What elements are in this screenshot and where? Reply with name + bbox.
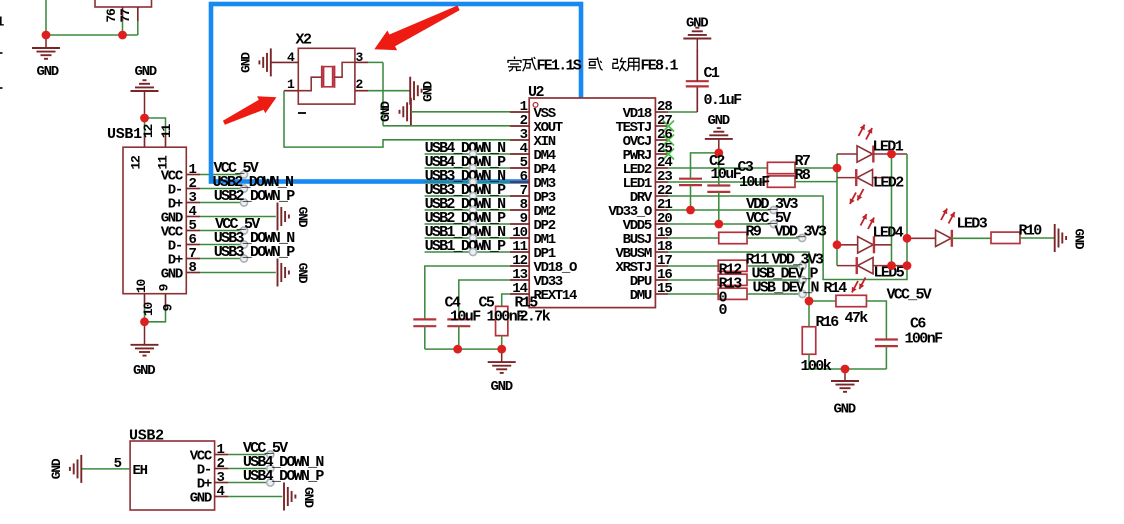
svg-text:USB1_DOWN_P: USB1_DOWN_P bbox=[425, 238, 507, 255]
crystal element plates bbox=[321, 66, 323, 88]
connector USB1 box bbox=[123, 147, 186, 294]
wire vertical from image top to node bbox=[45, 0, 47, 35]
U2 pin 9 stub bbox=[510, 223, 529, 225]
wire net USB2_DOWN_N bbox=[425, 209, 510, 211]
svg-text:USB_DEV_N: USB_DEV_N bbox=[753, 280, 820, 297]
svg-text:R9: R9 bbox=[746, 224, 762, 241]
no-connect mark bbox=[663, 135, 674, 146]
capacitor C6 bbox=[875, 338, 898, 340]
resistor R15 bbox=[496, 306, 508, 335]
wire R8 to LED column bbox=[795, 181, 837, 183]
wire R16 from node bbox=[808, 301, 810, 327]
svg-text:15: 15 bbox=[657, 281, 672, 297]
LED1 light arrows bbox=[859, 125, 865, 136]
wire R11 to net label bbox=[747, 265, 803, 267]
wire LED4 cathode to vertical A bbox=[874, 244, 892, 246]
capacitor C4 bbox=[413, 318, 436, 320]
wire C6 to rail bbox=[885, 346, 887, 369]
U2 pin 28 stub bbox=[655, 111, 668, 113]
USB1 pin 8 stub bbox=[186, 272, 200, 274]
U2 pin 19 stub bbox=[655, 237, 668, 239]
svg-text:GND: GND bbox=[708, 113, 730, 129]
ground above C2/C3 bbox=[718, 139, 720, 153]
U2 pin 3 stub bbox=[510, 139, 529, 141]
crystal element body bbox=[324, 67, 333, 87]
LED LED2 bbox=[857, 169, 873, 185]
U2 pin 18 stub bbox=[655, 251, 668, 253]
wire gnd to C3 branch bbox=[718, 153, 720, 185]
svg-text:U2: U2 bbox=[528, 84, 545, 101]
LED2 light arrows bbox=[857, 189, 863, 200]
svg-text:GND: GND bbox=[239, 52, 254, 73]
ground below R16/C6 bbox=[844, 369, 846, 381]
ground above C1 bbox=[696, 39, 698, 50]
svg-text:GND: GND bbox=[295, 207, 310, 228]
svg-text:12: 12 bbox=[141, 124, 156, 139]
svg-text:4: 4 bbox=[287, 50, 295, 65]
partial IC box (top-left, off-screen component) bbox=[95, 0, 152, 7]
wire vertical A bbox=[891, 154, 893, 266]
LED LED4 bbox=[858, 237, 874, 253]
wire gnd to C2 branch bbox=[691, 153, 719, 178]
wire net USB3_DOWN_N bbox=[425, 181, 510, 183]
U2 pin 13 stub bbox=[510, 279, 529, 281]
svg-text:GND: GND bbox=[834, 402, 856, 418]
svg-text:11: 11 bbox=[159, 124, 174, 139]
svg-text:10uF: 10uF bbox=[739, 174, 770, 191]
ground below USB1 bbox=[144, 322, 146, 345]
wire vertical B bbox=[906, 154, 908, 266]
wire XOUT horizontal bbox=[383, 125, 510, 127]
ground (sideways) at X2 pin4 bbox=[270, 48, 272, 76]
svg-text:FE8.1: FE8.1 bbox=[641, 57, 679, 74]
crystal lead left bbox=[299, 77, 322, 91]
svg-text:GND: GND bbox=[49, 458, 64, 479]
U2 pin 11 stub bbox=[510, 251, 529, 253]
U2 pin 6 stub bbox=[510, 181, 529, 183]
wire BUSJ to R9 bbox=[668, 237, 719, 239]
resistor R9 bbox=[719, 232, 747, 243]
resistor R16 bbox=[802, 327, 816, 355]
svg-text:R10: R10 bbox=[1019, 223, 1043, 240]
wire LED1 cathode to corner bbox=[874, 153, 908, 155]
LED5 light arrows bbox=[859, 278, 865, 289]
wire to LED1 anode bbox=[837, 153, 857, 155]
wire C1 up to ground bbox=[696, 50, 698, 82]
minus mark bbox=[298, 112, 306, 114]
svg-text:GND: GND bbox=[686, 16, 708, 32]
X2 pin 2 wire bbox=[355, 90, 368, 92]
wire to LED3 bbox=[907, 237, 936, 239]
svg-text:2: 2 bbox=[356, 77, 364, 92]
svg-text:GND: GND bbox=[37, 64, 59, 80]
U2 pin 2 stub bbox=[510, 125, 529, 127]
ground below rail bbox=[501, 349, 503, 362]
wire net USB4_DOWN_N bbox=[425, 153, 510, 155]
svg-text:8: 8 bbox=[189, 260, 197, 276]
wire C2 to VDD_3V3 row bbox=[690, 185, 692, 210]
crystal lead right bbox=[334, 62, 354, 77]
resistor R10 bbox=[991, 232, 1020, 243]
U2 pin 27 stub bbox=[655, 125, 668, 127]
blue annotation rectangle bbox=[211, 4, 581, 182]
LED3 light arrows bbox=[941, 209, 947, 220]
U2 pin 15 stub bbox=[655, 293, 668, 295]
wire pin12 up bbox=[144, 118, 146, 133]
resistor R12 bbox=[718, 274, 747, 285]
svg-text:5: 5 bbox=[114, 456, 122, 472]
wire R12 to net label bbox=[747, 279, 803, 281]
wire LED5 anode bbox=[873, 265, 907, 267]
U2 pin 1 stub bbox=[510, 111, 529, 113]
wire LED5 branch bbox=[837, 265, 857, 267]
red annotation arrow 2 bbox=[223, 96, 277, 125]
USB1 pin 2 stub bbox=[186, 188, 200, 190]
U2 pin 7 stub bbox=[510, 195, 529, 197]
svg-text:11: 11 bbox=[156, 155, 171, 170]
U2 pin 25 stub bbox=[655, 153, 668, 155]
LED LED5 bbox=[858, 257, 874, 273]
svg-text:100k: 100k bbox=[801, 358, 832, 375]
U2 pin 26 stub bbox=[655, 139, 668, 141]
X2 pin 4 wire bbox=[271, 61, 299, 63]
pin 10 down bbox=[144, 294, 146, 308]
wire U2 pin23 to R8 bbox=[668, 181, 767, 183]
partial glyph mark at left edge bbox=[0, 87, 3, 89]
wire R14 to VCC corner bbox=[867, 301, 887, 339]
svg-text:C1: C1 bbox=[704, 65, 720, 82]
wire VD33_O to net label bbox=[668, 209, 774, 211]
ground (sideways) right of R10 bbox=[1054, 224, 1056, 252]
wire U2 pin13 to C5 bbox=[459, 280, 510, 319]
svg-text:GND: GND bbox=[190, 491, 212, 507]
ground (sideways) at X2 pin2 bbox=[409, 77, 411, 105]
capacitor C2 bbox=[679, 178, 702, 180]
LED4 light arrows bbox=[861, 214, 867, 225]
wire to LED4 anode bbox=[837, 244, 858, 246]
wire DRV long route bbox=[668, 196, 907, 280]
U2 pin 24 stub bbox=[655, 167, 668, 169]
USB1 pin 1 stub bbox=[186, 174, 200, 176]
wire XIN route from X2 pin1 bbox=[284, 91, 510, 147]
svg-text:1: 1 bbox=[0, 15, 4, 31]
wire U2 pin14 to R15 bbox=[502, 294, 510, 306]
svg-text:USB3_DOWN_P: USB3_DOWN_P bbox=[214, 244, 296, 261]
partial glyph mark at left edge bbox=[0, 52, 3, 54]
ground (sideways) for U2 VSS bbox=[410, 98, 412, 126]
U2 pin 16 stub bbox=[655, 279, 668, 281]
USB2 pin 1 stub bbox=[215, 454, 228, 456]
U2 pin 5 stub bbox=[510, 167, 529, 169]
svg-text:USB4_DOWN_P: USB4_DOWN_P bbox=[243, 468, 325, 485]
U2 pin 8 stub bbox=[510, 209, 529, 211]
wire net USB1_DOWN_N bbox=[425, 237, 510, 239]
resistor R11 bbox=[718, 260, 747, 271]
U2 pin 10 stub bbox=[510, 237, 529, 239]
ground (sideways) at USB2 pin4 bbox=[283, 483, 285, 511]
wire R7 to LED pair bbox=[795, 167, 837, 169]
no-connect mark bbox=[663, 121, 674, 132]
U2 pin 22 stub bbox=[655, 195, 668, 197]
svg-text:REXT14: REXT14 bbox=[534, 288, 578, 304]
svg-text:47k: 47k bbox=[845, 310, 869, 327]
wire horizontal GND bus bbox=[46, 34, 138, 36]
USB1 pin 3 stub bbox=[186, 202, 200, 204]
pin 9 down bbox=[165, 294, 167, 308]
wire net USB4_DOWN_P bbox=[425, 167, 510, 169]
wire XRSTJ to R11 bbox=[668, 265, 718, 267]
wire bottom rail bbox=[809, 368, 886, 370]
wire VBUSM down to R14 node bbox=[668, 252, 809, 301]
resistor R14 bbox=[836, 295, 867, 306]
U2 pin 14 stub bbox=[510, 293, 529, 295]
pin1 indicator circle bbox=[533, 103, 538, 108]
wire U2 pin24 to R7 bbox=[668, 167, 767, 169]
wire LED3 to R10 bbox=[952, 237, 992, 239]
svg-text:USB1: USB1 bbox=[107, 126, 142, 143]
wire net USB3_DOWN_P bbox=[425, 195, 510, 197]
svg-text:VDD_3V3: VDD_3V3 bbox=[775, 224, 828, 241]
svg-text:GND: GND bbox=[378, 101, 393, 122]
svg-text:10uF: 10uF bbox=[450, 309, 481, 326]
wire net USB1_DOWN_P bbox=[425, 251, 510, 253]
svg-text:X2: X2 bbox=[296, 32, 313, 49]
USB1 pin 7 stub bbox=[186, 258, 200, 260]
ground (sideways) left of USB2 bbox=[80, 455, 82, 483]
wire XOUT vertical from X2 pin3 bbox=[382, 62, 384, 125]
svg-text:USB2_DOWN_P: USB2_DOWN_P bbox=[214, 188, 296, 205]
capacitor C3 bbox=[707, 184, 730, 186]
svg-text:LED4: LED4 bbox=[873, 225, 904, 242]
svg-text:GND: GND bbox=[161, 267, 183, 283]
ground (sideways) at USB1 pin4 bbox=[277, 203, 279, 231]
U2 pin 12 stub bbox=[510, 265, 529, 267]
wire R9 to net label bbox=[747, 237, 802, 239]
wire R13 to net label bbox=[747, 293, 803, 295]
wire DMU to R13 bbox=[668, 293, 718, 295]
svg-text:12: 12 bbox=[129, 155, 144, 170]
capacitor C1 bbox=[686, 80, 709, 82]
svg-text:10: 10 bbox=[134, 279, 149, 294]
USB2 pin 5 wire bbox=[81, 468, 130, 470]
wire to LED2 cathode bbox=[837, 177, 856, 179]
wire U2 pin28 to C1 bbox=[668, 111, 697, 113]
wire ground rail bbox=[425, 348, 502, 350]
wire C5 to rail bbox=[458, 326, 460, 349]
svg-text:GND: GND bbox=[295, 263, 310, 284]
wire R16 to rail bbox=[808, 354, 810, 369]
wire R10 to ground bbox=[1020, 237, 1055, 239]
LED LED1 bbox=[857, 146, 873, 162]
wire LED column vertical bbox=[836, 154, 838, 266]
resistor R8 bbox=[767, 176, 795, 187]
USB2 pin 2 stub bbox=[215, 468, 228, 470]
red annotation arrow 1 bbox=[374, 6, 459, 51]
U2 pin 21 stub bbox=[655, 209, 668, 211]
no-connect mark bbox=[663, 149, 674, 160]
wire R15 to rail bbox=[501, 336, 503, 350]
svg-text:GND: GND bbox=[135, 64, 157, 80]
connector USB2 box bbox=[130, 441, 215, 510]
wire C4 to rail bbox=[424, 326, 426, 349]
ground (points up, above USB1 shield pins) bbox=[144, 91, 146, 118]
svg-text:2.7k: 2.7k bbox=[520, 309, 551, 326]
svg-text:100nF: 100nF bbox=[905, 331, 944, 348]
svg-text:GND: GND bbox=[491, 379, 513, 395]
wire LED2 anode bbox=[873, 177, 892, 179]
U2 pin 17 stub bbox=[655, 265, 668, 267]
X2 pin 1 wire bbox=[284, 90, 298, 92]
svg-text:GND: GND bbox=[301, 487, 316, 508]
svg-text:LED2: LED2 bbox=[873, 174, 904, 191]
USB2 pin 3 stub bbox=[215, 482, 228, 484]
svg-text:1: 1 bbox=[287, 77, 295, 92]
ground bbox=[45, 35, 47, 48]
crystal X2 box bbox=[298, 48, 355, 104]
LED LED3 bbox=[936, 230, 952, 246]
svg-text:GND: GND bbox=[133, 363, 155, 379]
capacitor C5 bbox=[447, 318, 470, 320]
svg-text:R16: R16 bbox=[816, 314, 840, 331]
pin 77 bbox=[137, 7, 139, 21]
wire VSS bbox=[411, 111, 510, 113]
wire C3 to VCC_5V row bbox=[718, 192, 720, 224]
resistor R13 bbox=[718, 288, 747, 299]
ground (sideways) at USB1 pin8 bbox=[277, 259, 279, 287]
wire U2 pin12 to C4 bbox=[425, 266, 510, 319]
X2 pin 3 wire bbox=[355, 61, 368, 63]
IC U2 box bbox=[529, 98, 655, 308]
svg-text:GND: GND bbox=[421, 81, 436, 102]
svg-text:USB2: USB2 bbox=[129, 428, 164, 445]
wire pin11 up bbox=[145, 118, 166, 133]
wire DPU to R12 bbox=[668, 279, 718, 281]
svg-text:4: 4 bbox=[217, 484, 225, 500]
svg-text:0.1uF: 0.1uF bbox=[704, 92, 743, 109]
wire VDD5 to net label bbox=[668, 223, 774, 225]
USB1 pin 5 stub bbox=[186, 230, 200, 232]
svg-text:GND: GND bbox=[1072, 228, 1087, 249]
USB1 pin 6 stub bbox=[186, 244, 200, 246]
wire net USB2_DOWN_P bbox=[425, 223, 510, 225]
svg-text:LED3: LED3 bbox=[957, 216, 988, 233]
svg-text:R14: R14 bbox=[824, 280, 848, 297]
svg-text:DMU: DMU bbox=[630, 288, 652, 304]
resistor R7 bbox=[767, 162, 795, 173]
svg-text:VCC_5V: VCC_5V bbox=[887, 287, 932, 304]
U2 pin 4 stub bbox=[510, 153, 529, 155]
USB1 pin 4 stub bbox=[186, 216, 200, 218]
USB2 pin 4 stub bbox=[215, 496, 228, 498]
svg-text:10: 10 bbox=[141, 302, 156, 317]
U2 pin 23 stub bbox=[655, 181, 668, 183]
pin 76 bbox=[122, 7, 124, 21]
svg-text:R8: R8 bbox=[795, 167, 811, 184]
wire node to R14 bbox=[809, 300, 836, 302]
svg-text:EH: EH bbox=[133, 463, 148, 479]
svg-text:77: 77 bbox=[118, 9, 133, 23]
svg-text:3: 3 bbox=[356, 50, 364, 65]
svg-text:FE1.1S: FE1.1S bbox=[537, 57, 582, 74]
U2 pin 20 stub bbox=[655, 223, 668, 225]
